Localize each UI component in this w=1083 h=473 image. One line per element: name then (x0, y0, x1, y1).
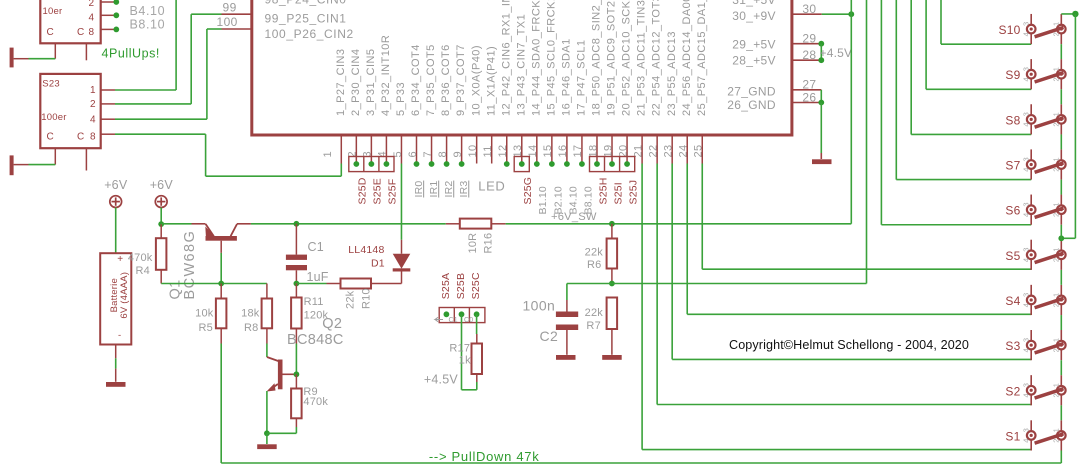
pin 26 GND stub (792, 102, 821, 104)
pin 14 stub (536, 135, 538, 164)
svg-text:23: 23 (662, 144, 674, 157)
svg-text:S6: S6 (1005, 204, 1020, 218)
wire R8 to Q2 collector (266, 328, 268, 343)
svg-text:IR1: IR1 (428, 181, 440, 198)
svg-text:10_X0A(P40): 10_X0A(P40) (470, 45, 482, 116)
battery BAT1 body (100, 253, 131, 344)
resistor R10 (341, 279, 372, 289)
svg-text:C: C (47, 132, 54, 143)
junction +9V (848, 11, 854, 17)
svg-text:1: 1 (1051, 157, 1060, 161)
wire C1 to R10 (296, 283, 326, 285)
svg-text:24: 24 (678, 144, 690, 157)
ground symbol right of IC (812, 159, 832, 164)
resistor R11 (295, 284, 297, 298)
wire chain S6-S5 (1060, 225, 1062, 240)
wire to S10 (940, 0, 942, 44)
wire pin21 to switch (641, 164, 643, 450)
junction pin 16 (564, 161, 570, 167)
svg-text:1: 1 (322, 151, 334, 158)
svg-text:S25I: S25I (612, 182, 624, 204)
wire pin99 net (222, 13, 252, 15)
pin 22 stub (656, 135, 658, 164)
wire +4.5V vertical (820, 44, 822, 61)
wire to IC pin1 (115, 133, 206, 135)
svg-text:16_P46_SDA1: 16_P46_SDA1 (561, 38, 573, 116)
svg-text:+4.5V: +4.5V (424, 373, 458, 387)
svg-text:+6V: +6V (150, 178, 174, 192)
svg-text:-: - (118, 330, 121, 341)
svg-text:21_P53_ADC11_TIN3: 21_P53_ADC11_TIN3 (636, 0, 648, 116)
op-amp U1 microcontroller body (252, 0, 792, 135)
svg-text:3_P31_CIN5: 3_P31_CIN5 (365, 49, 377, 117)
Q2 emitter wire (266, 391, 268, 433)
svg-text:S23: S23 (42, 78, 60, 89)
ground symbol R7 (602, 355, 622, 360)
svg-text:5_P33: 5_P33 (395, 82, 407, 116)
svg-text:27_GND: 27_GND (727, 84, 776, 98)
switch S23 100er body (40, 74, 100, 148)
junction pin 14 (534, 161, 540, 167)
svg-text:13: 13 (512, 144, 524, 157)
junction pin 20 (624, 161, 630, 167)
pin 3 stub (370, 135, 372, 164)
pin stub S23 C right (85, 148, 87, 170)
pin 28 +5V stub (792, 59, 821, 61)
pin stub S22 B4.10 (101, 14, 114, 16)
wire to S8 (910, 0, 912, 134)
svg-text:2: 2 (90, 99, 96, 110)
pin 4 stub (385, 135, 387, 164)
wire pulldown rail (221, 462, 1061, 464)
pin 15 stub (551, 135, 553, 164)
wire chain S10-S9 (1060, 44, 1062, 59)
svg-text:100er: 100er (41, 112, 66, 123)
resistor R7 (607, 298, 618, 330)
svg-text:11_X1A(P41): 11_X1A(P41) (485, 46, 497, 116)
junction C1 bottom (294, 281, 300, 287)
power +6V symbol b (155, 196, 167, 208)
svg-text:C2: C2 (540, 328, 559, 344)
svg-text:3: 3 (1021, 338, 1030, 342)
svg-text:S8: S8 (1005, 113, 1020, 127)
wire +6V to R4/Q1 (160, 208, 162, 225)
junction Q2 emitter gnd (264, 430, 270, 436)
svg-text:19_P51_ADC9_SOT2: 19_P51_ADC9_SOT2 (606, 1, 618, 116)
connector S25H/I/J box (590, 157, 635, 172)
svg-text:13_P43_CIN7_TX1: 13_P43_CIN7_TX1 (515, 14, 527, 116)
wire to S7 (895, 0, 897, 180)
svg-text:S25D: S25D (357, 177, 369, 204)
svg-text:IR3: IR3 (458, 181, 470, 198)
svg-text:4: 4 (1021, 393, 1030, 397)
resistor R6 (611, 224, 613, 239)
pin 25 stub (701, 135, 703, 164)
transistor Q2 BC848C (278, 360, 283, 390)
svg-text:S10: S10 (999, 23, 1021, 37)
Q1 collector wire (237, 223, 251, 225)
wire pin24 to switch (686, 164, 688, 315)
svg-text:2: 2 (1051, 439, 1060, 443)
wire pin23 to switch (671, 164, 673, 360)
wire pin22 to switch (656, 164, 658, 405)
pin 11 stub (LED) (491, 135, 493, 164)
pin 17 stub (581, 135, 583, 164)
svg-text:1: 1 (1051, 112, 1060, 116)
ground symbol Q2 (257, 444, 277, 449)
svg-text:S9: S9 (1005, 68, 1020, 82)
junction R6 top (609, 221, 615, 227)
svg-text:22k: 22k (344, 290, 356, 309)
pin stub S23 8 (101, 133, 115, 135)
svg-text:470k: 470k (303, 396, 328, 408)
pin 16 stub (566, 135, 568, 164)
svg-text:2: 2 (1051, 348, 1060, 352)
wire S22 C to bar (14, 58, 29, 60)
wire R9 bottom (295, 418, 297, 427)
connector S25D/E/F box (349, 157, 394, 172)
svg-text:24_P56_ADC14_DA00: 24_P56_ADC14_DA00 (681, 0, 693, 116)
svg-text:2: 2 (1051, 258, 1060, 262)
svg-text:S25C: S25C (470, 272, 482, 299)
svg-text:10R: 10R (467, 233, 479, 254)
svg-text:B1.10: B1.10 (537, 186, 549, 214)
junction chain top (1072, 11, 1078, 17)
pin 2 stub (355, 135, 357, 164)
svg-text:R16: R16 (482, 233, 494, 254)
svg-text:22k: 22k (585, 247, 604, 259)
svg-text:R8: R8 (244, 322, 258, 334)
junction pin 7 (429, 161, 435, 167)
svg-text:6_P34_COT4: 6_P34_COT4 (410, 44, 422, 116)
svg-text:4: 4 (90, 114, 96, 125)
pin 18 stub (596, 135, 598, 164)
junction pin 13 (519, 161, 525, 167)
diode D1 LL4148 (401, 240, 403, 254)
svg-text:C: C (77, 27, 84, 38)
svg-text:29: 29 (802, 32, 816, 46)
svg-text:3: 3 (1021, 67, 1030, 71)
pin stub S23 C left (54, 148, 56, 164)
junction pin 15 (549, 161, 555, 167)
svg-text:2: 2 (1051, 393, 1060, 397)
svg-text:25_P57_ADC15_DA1_PPG2: 25_P57_ADC15_DA1_PPG2 (696, 0, 708, 116)
junction B2.10 (113, 0, 119, 5)
svg-text:14: 14 (527, 144, 539, 157)
wire +9V (822, 13, 852, 15)
svg-text:17: 17 (572, 144, 584, 157)
svg-text:2: 2 (1051, 303, 1060, 307)
wire chain S7-S6 (1060, 180, 1062, 195)
ground bar S23 (10, 155, 14, 175)
wire R11 to Q2 base (295, 329, 297, 344)
svg-text:D1: D1 (371, 258, 385, 270)
junction pin 17 (579, 161, 585, 167)
svg-text:3: 3 (1021, 112, 1030, 116)
svg-text:12_P42_CIN6_RX1_INT11R: 12_P42_CIN6_RX1_INT11R (500, 0, 512, 116)
svg-text:1: 1 (1051, 383, 1060, 387)
pin 20 stub (626, 135, 628, 164)
wire divider to +9V column (612, 283, 867, 285)
wire emitter to ground (266, 433, 268, 444)
svg-text:+4.5V: +4.5V (820, 46, 853, 60)
wire chain S1 to rail (1060, 451, 1062, 464)
svg-text:S3: S3 (1005, 339, 1020, 353)
svg-text:1: 1 (1051, 293, 1060, 297)
svg-text:470k: 470k (128, 252, 153, 264)
svg-text:4: 4 (1021, 77, 1030, 81)
svg-text:IR0: IR0 (413, 181, 425, 198)
Q1 base wire (220, 241, 222, 253)
switch S1 (1027, 420, 1066, 450)
junction Q2 base (294, 371, 300, 377)
svg-text:98_P24_CIN0: 98_P24_CIN0 (265, 0, 347, 7)
wire C2 branch (567, 283, 612, 285)
pin stub S22 B8.10 (101, 28, 114, 30)
svg-text:7_P35_COT5: 7_P35_COT5 (425, 44, 437, 116)
tiny net label arrow (435, 317, 443, 321)
ground bar S22 (10, 48, 14, 68)
svg-text:S25G: S25G (522, 177, 534, 205)
wire gnd27 (820, 90, 822, 103)
wire to S9 (925, 0, 927, 89)
svg-text:R11: R11 (304, 296, 324, 308)
pin 10 stub (LED) (476, 135, 478, 164)
wire S10 top to +9V (1061, 13, 1075, 15)
wire +6V_SW (251, 223, 297, 225)
svg-text:B8.10: B8.10 (130, 18, 166, 32)
svg-text:3: 3 (1021, 22, 1030, 26)
power +6V symbol a (110, 196, 122, 208)
svg-text:30_+9V: 30_+9V (732, 9, 776, 23)
svg-text:S25F: S25F (387, 179, 399, 205)
svg-text:11: 11 (482, 145, 494, 157)
svg-text:1: 1 (1051, 67, 1060, 71)
svg-text:LL4148: LL4148 (348, 244, 384, 256)
svg-text:LED: LED (478, 179, 505, 194)
pin 12 stub (506, 135, 508, 164)
junction S25B (459, 311, 465, 317)
pin 23 stub (671, 135, 673, 164)
svg-text:22k: 22k (585, 307, 604, 319)
pin stub S23 1 (101, 89, 115, 91)
svg-text:3: 3 (1021, 248, 1030, 252)
svg-text:17_P47_SCL1: 17_P47_SCL1 (576, 39, 588, 116)
junction chain mid (1058, 235, 1064, 241)
svg-text:10k: 10k (195, 308, 214, 320)
capacitor C1 (295, 224, 297, 255)
svg-text:S25B: S25B (455, 273, 467, 300)
svg-text:28_+5V: 28_+5V (732, 53, 776, 67)
resistor R9 (295, 374, 297, 388)
wire S25B loop (461, 314, 463, 390)
svg-text:4: 4 (1021, 348, 1030, 352)
svg-text:Batterie: Batterie (109, 278, 120, 312)
junction pin 9 (459, 161, 465, 167)
svg-text:+6V_SW: +6V_SW (551, 211, 597, 223)
resistor R4 (160, 224, 162, 238)
svg-text:21: 21 (632, 144, 644, 157)
svg-text:1: 1 (1051, 338, 1060, 342)
wire gnd down (820, 103, 822, 154)
svg-text:28: 28 (802, 48, 816, 62)
svg-text:4: 4 (1021, 122, 1030, 126)
junction pin 2 (353, 161, 359, 167)
resistor R8 (262, 299, 273, 329)
svg-text:2_P30_CIN4: 2_P30_CIN4 (350, 49, 362, 117)
wire chain S4-S3 (1060, 315, 1062, 330)
svg-text:R10: R10 (361, 288, 373, 309)
junction S25C (474, 311, 480, 317)
svg-text:1: 1 (1051, 202, 1060, 206)
pin 29 +5V stub (792, 43, 821, 45)
junction C1 top (294, 221, 300, 227)
svg-text:4_P32_INT10R: 4_P32_INT10R (380, 35, 392, 116)
svg-text:4: 4 (1021, 213, 1030, 217)
pin 7 stub (431, 135, 433, 164)
pin 5 stub (400, 135, 402, 164)
svg-text:4: 4 (1021, 439, 1030, 443)
wire chain S2-S1 (1060, 405, 1062, 420)
svg-text:8: 8 (90, 132, 96, 143)
svg-text:22_P54_ADC12_TOT3_PPG1: 22_P54_ADC12_TOT3_PPG1 (651, 0, 663, 116)
svg-text:S25H: S25H (597, 177, 609, 204)
svg-text:18: 18 (587, 144, 599, 157)
svg-text:3: 3 (1021, 383, 1030, 387)
svg-text:BC848C: BC848C (287, 332, 344, 348)
svg-text:+6V: +6V (104, 178, 128, 192)
svg-text:18k: 18k (241, 308, 260, 320)
svg-text:2: 2 (1051, 168, 1060, 172)
switch S2 (1027, 375, 1066, 405)
pin 21 stub (641, 135, 643, 164)
wire chain S5-S4 (1060, 270, 1062, 285)
svg-text:99: 99 (223, 1, 237, 15)
svg-text:1: 1 (1051, 248, 1060, 252)
junction pin 19 (609, 161, 615, 167)
pin stub S23 2 (101, 103, 115, 105)
svg-text:C1: C1 (308, 240, 324, 254)
svg-text:6V (4AAA): 6V (4AAA) (119, 272, 130, 319)
svg-text:1: 1 (90, 85, 96, 96)
svg-text:4: 4 (1021, 32, 1030, 36)
svg-text:S1: S1 (1005, 429, 1020, 443)
capacitor C2 (566, 300, 568, 312)
svg-text:Copyright©Helmut Schellong - 2: Copyright©Helmut Schellong - 2004, 2020 (729, 338, 969, 352)
junction Q1 base R5 (218, 281, 224, 287)
resistor R17 (472, 344, 483, 375)
svg-text:4: 4 (88, 12, 94, 23)
svg-text:25: 25 (693, 144, 705, 157)
svg-text:B4.10: B4.10 (130, 4, 166, 18)
wire R8 drop (266, 284, 268, 299)
wire base rail left (161, 283, 267, 285)
svg-text:S25E: S25E (372, 178, 384, 205)
svg-text:14_P44_SDA0_FRCK0_IN5: 14_P44_SDA0_FRCK0_IN5 (530, 0, 542, 116)
junction B4.10 (113, 12, 119, 18)
svg-text:9_P37_COT7: 9_P37_COT7 (455, 44, 467, 116)
pin 24 stub (686, 135, 688, 164)
svg-text:S2: S2 (1005, 384, 1020, 398)
junction +6V (158, 221, 164, 227)
svg-text:2: 2 (1051, 77, 1060, 81)
junction R6 bottom (609, 281, 615, 287)
wire divider column (866, 0, 868, 284)
pin 13 stub (521, 135, 523, 164)
connector S25A/B/C box (439, 308, 485, 323)
wire pin100 net (222, 28, 252, 30)
svg-text:1_P27_CIN3: 1_P27_CIN3 (335, 49, 347, 117)
svg-text:C0: C0 (464, 317, 473, 324)
svg-text:1k: 1k (459, 355, 471, 367)
svg-text:22: 22 (647, 144, 659, 157)
switch S9 (1027, 59, 1066, 89)
wire +9V column (850, 0, 852, 224)
pin stub S22 B2.10 (101, 1, 114, 3)
junction pin 18 (594, 161, 600, 167)
svg-text:16: 16 (557, 144, 569, 157)
svg-text:C: C (77, 132, 84, 143)
svg-text:6: 6 (407, 151, 419, 158)
svg-text:4: 4 (1021, 168, 1030, 172)
svg-text:R6: R6 (587, 259, 601, 271)
svg-text:26_GND: 26_GND (727, 98, 776, 112)
svg-text:+: + (117, 254, 123, 265)
svg-text:R7: R7 (586, 320, 600, 332)
junction pin 3 (368, 161, 374, 167)
wire chain S3-S2 (1060, 360, 1062, 375)
wire to pin99 (115, 103, 191, 105)
ground symbol C2 (556, 355, 576, 360)
svg-text:BCW68G: BCW68G (182, 230, 198, 300)
switch S7 (1027, 149, 1066, 179)
wire R5 to pulldown rail (220, 328, 222, 343)
pin 8 stub (446, 135, 448, 164)
wire to S6 (880, 0, 882, 225)
switch S8 (1027, 104, 1066, 134)
junction S25A (444, 311, 450, 317)
switch S22 10er body (40, 0, 100, 43)
connector S25G box (514, 157, 529, 172)
wire +6V to battery (115, 208, 117, 254)
svg-text:C1: C1 (449, 317, 458, 324)
svg-text:2: 2 (88, 0, 94, 9)
svg-text:S5: S5 (1005, 249, 1020, 263)
svg-text:2: 2 (1051, 122, 1060, 126)
wire right outer column (1074, 14, 1076, 238)
svg-text:19: 19 (602, 144, 614, 157)
pin stub S22 C right (85, 43, 87, 60)
junction pin29 (818, 41, 824, 47)
svg-text:23_P55_ADC13: 23_P55_ADC13 (666, 31, 678, 116)
wire pin1 to switch S23 (340, 164, 342, 177)
svg-text:100: 100 (217, 15, 238, 29)
svg-text:1: 1 (1051, 428, 1060, 432)
svg-text:8: 8 (88, 27, 94, 38)
wire S25C to R17 (476, 314, 478, 334)
junction B8.10 (113, 27, 119, 33)
junction pin 6 (414, 161, 420, 167)
svg-text:3: 3 (1021, 202, 1030, 206)
svg-text:9: 9 (452, 151, 464, 158)
svg-text:S25A: S25A (440, 273, 452, 300)
svg-text:100n: 100n (523, 298, 556, 314)
svg-text:26: 26 (802, 90, 816, 104)
svg-text:31_+5V: 31_+5V (732, 0, 776, 7)
svg-text:100_P26_CIN2: 100_P26_CIN2 (265, 27, 354, 41)
svg-text:8_P36_COT6: 8_P36_COT6 (440, 44, 452, 116)
svg-text:R4: R4 (136, 265, 150, 277)
